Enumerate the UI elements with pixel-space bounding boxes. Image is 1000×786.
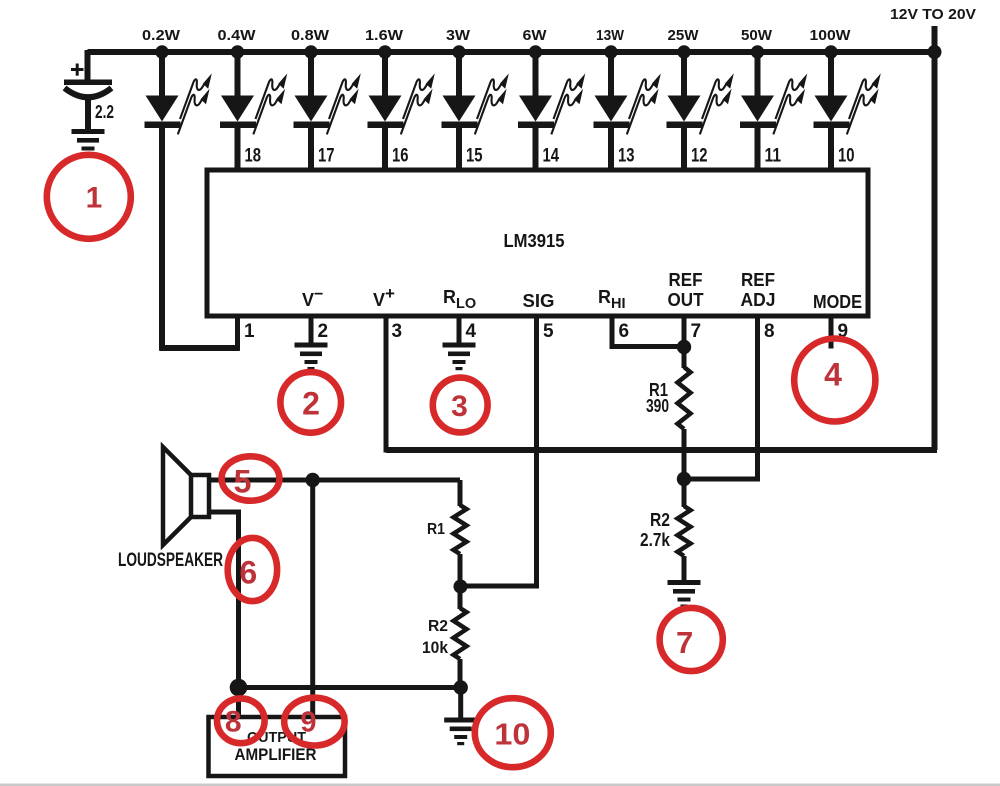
LED D1 emission arrows (178, 73, 212, 134)
LED D2 (0.4W) (220, 52, 256, 172)
LED D9 emission arrows (773, 73, 807, 134)
wire: pin 6 RHI stub (610, 316, 615, 349)
LED D8 (25W) (667, 52, 703, 172)
capacitor C1 2.2uF polarized (64, 50, 114, 129)
svg-text:3: 3 (392, 321, 403, 342)
svg-text:25W: 25W (668, 27, 700, 44)
LED D6 (6W) (518, 52, 554, 172)
svg-text:OUT: OUT (668, 290, 704, 310)
block: OUTPUT AMPLIFIER box (209, 717, 346, 776)
svg-text:3W: 3W (446, 27, 471, 44)
svg-text:14: 14 (543, 146, 560, 167)
wire: amplifier signal output lead (310, 480, 315, 717)
wire: divider top from speaker wire (458, 480, 463, 506)
svg-text:12: 12 (691, 146, 708, 167)
svg-text:2: 2 (318, 321, 329, 342)
svg-text:3: 3 (451, 390, 468, 423)
svg-text:2.2: 2.2 (95, 102, 114, 122)
LED D3 emission arrows (327, 73, 361, 134)
resistor R1 (divider) (454, 505, 467, 554)
wire: pin 4 stub (457, 316, 462, 343)
LED D4 (1.6W) (368, 52, 404, 172)
wire: pin 1 to LED D1 horizontal (160, 345, 240, 351)
resistor R1 390 (678, 367, 691, 429)
LED D10 (100W) (814, 52, 850, 172)
svg-text:R2: R2 (650, 510, 670, 530)
svg-text:7: 7 (691, 321, 702, 342)
LED D1 (0.2W) (145, 52, 181, 351)
node: junction ground bus left (230, 679, 248, 697)
node: junction amplifier output (306, 473, 320, 487)
svg-text:6: 6 (619, 321, 630, 342)
node: junction ground bus right (454, 680, 468, 694)
node: junction divider tap to SIG (454, 580, 468, 594)
wire: pin 2 stub (309, 316, 314, 343)
svg-text:4: 4 (824, 357, 842, 393)
svg-text:9: 9 (300, 707, 316, 739)
svg-text:8: 8 (225, 706, 242, 739)
svg-text:AMPLIFIER: AMPLIFIER (235, 745, 317, 764)
wire: pin 3 V+ down (384, 316, 389, 453)
LED D7 (13W) (594, 52, 630, 172)
ground: main circuit ground (444, 718, 477, 746)
svg-text:16: 16 (392, 146, 409, 167)
svg-text:4: 4 (466, 321, 477, 342)
svg-text:10: 10 (838, 146, 855, 167)
svg-text:13: 13 (618, 146, 635, 167)
svg-text:ADJ: ADJ (741, 290, 776, 310)
LED D5 (3W) (442, 52, 478, 172)
svg-text:1: 1 (244, 321, 255, 342)
svg-text:0.8W: 0.8W (291, 27, 330, 44)
svg-text:2.7k: 2.7k (640, 530, 671, 550)
ground: below capacitor C1 (72, 129, 105, 157)
node: junction top-right rail corner (928, 45, 942, 59)
node: rail junction LED8 (677, 45, 690, 58)
wire: speaker top terminal to divider (209, 478, 460, 483)
svg-text:13W: 13W (596, 27, 625, 44)
LED D10 emission arrows (847, 73, 881, 134)
svg-text:10: 10 (494, 717, 530, 752)
LED D7 emission arrows (627, 73, 661, 134)
LED D3 (0.8W) (294, 52, 330, 172)
svg-text:0.4W: 0.4W (218, 27, 257, 44)
wire: SIG horizontal to divider tap (461, 584, 537, 589)
annotation circle 9 (284, 698, 344, 746)
svg-text:MODE: MODE (813, 292, 862, 312)
svg-text:15: 15 (466, 146, 483, 167)
svg-text:1.6W: 1.6W (365, 27, 404, 44)
svg-text:390: 390 (646, 396, 669, 416)
LED D4 emission arrows (401, 73, 435, 134)
wire: pin 7 REF OUT down (682, 316, 687, 368)
ground: RLO pin 4 (443, 343, 476, 371)
wire: between divider R1 and R2 (458, 554, 463, 609)
wire: V+ horizontal to right rail (386, 447, 937, 453)
svg-text:5: 5 (543, 321, 554, 342)
svg-text:1: 1 (86, 182, 103, 215)
node: rail junction LED2 (231, 45, 244, 58)
op-amp/IC U1 LM3915 body (207, 170, 868, 316)
svg-text:6W: 6W (523, 27, 548, 44)
LED D2 emission arrows (253, 73, 287, 134)
wire: speaker bottom terminal (209, 512, 239, 690)
svg-text:10k: 10k (422, 638, 448, 657)
decorative scan edge (bottom) (0, 784, 1000, 786)
resistor R2 2.7k (678, 506, 691, 556)
wire: +V right vertical rail from 12V-20V down to V+ wire (932, 26, 938, 450)
wire: pin 9 MODE stub (829, 316, 834, 349)
node: junction R1/R2/REF ADJ (677, 472, 691, 486)
svg-text:LOUDSPEAKER: LOUDSPEAKER (118, 550, 223, 571)
node: rail junction LED4 (378, 45, 391, 58)
node: junction pin6/pin7 (677, 340, 691, 354)
loudspeaker LS1 symbol (163, 447, 209, 545)
wire: amplifier ground lead (236, 688, 241, 718)
wire: R2 bottom to ground node (458, 659, 463, 688)
wire: R1 bottom through V+ crossing down to node (682, 429, 687, 507)
svg-text:50W: 50W (741, 27, 773, 44)
svg-text:SIG: SIG (523, 291, 555, 311)
wire: pin 6 to pin 7 link (612, 344, 684, 349)
wire: +V top supply rail (88, 49, 935, 55)
LED D6 emission arrows (551, 73, 585, 134)
annotation circle 6 (228, 538, 277, 601)
ground: V- pin 2 (295, 343, 328, 371)
node: rail junction LED9 (751, 45, 764, 58)
node: rail junction LED5 (452, 45, 465, 58)
LED D9 (50W) (740, 52, 776, 172)
wire: down to ground symbol (458, 688, 463, 719)
node: rail junction LED6 (529, 45, 542, 58)
svg-text:7: 7 (676, 625, 693, 660)
resistor R2 10k (454, 608, 467, 659)
annotation circle 2 (280, 372, 341, 433)
wire: node to pin 8 column (684, 477, 760, 482)
svg-text:REF: REF (669, 270, 703, 290)
svg-text:100W: 100W (810, 27, 852, 44)
node: rail junction LED3 (304, 45, 317, 58)
LED D8 emission arrows (700, 73, 734, 134)
annotation circle 4 (794, 339, 875, 422)
svg-text:12V TO 20V: 12V TO 20V (890, 6, 976, 23)
node: rail junction LED7 (604, 45, 617, 58)
node: rail junction LED10 (824, 45, 837, 58)
ground: below R2 2.7k (668, 580, 701, 608)
annotation circle 5 (222, 456, 280, 500)
svg-text:LM3915: LM3915 (504, 231, 565, 251)
svg-text:2: 2 (302, 386, 320, 422)
wire: ground bus horizontal (239, 685, 461, 690)
svg-text:17: 17 (318, 146, 335, 167)
svg-text:8: 8 (764, 321, 775, 342)
svg-text:18: 18 (245, 146, 262, 167)
LED D5 emission arrows (475, 73, 509, 134)
annotation circle 7 (660, 608, 723, 671)
svg-text:0.2W: 0.2W (142, 27, 181, 44)
annotation circle 10 (475, 698, 551, 767)
wire: pin 8 REF ADJ down (755, 316, 760, 482)
annotation circle 8 (217, 698, 265, 743)
wire: R2 to ground (682, 556, 687, 581)
wire: pin 5 SIG down (534, 316, 539, 589)
node: rail junction LED1 (155, 45, 168, 58)
svg-text:5: 5 (234, 464, 252, 500)
svg-text:6: 6 (239, 555, 257, 591)
svg-text:REF: REF (741, 270, 775, 290)
wire: pin 1 stub down (235, 316, 240, 351)
svg-text:R1: R1 (427, 521, 445, 538)
svg-text:11: 11 (765, 146, 782, 167)
annotation circle 3 (433, 378, 488, 433)
annotation circle 1 (47, 155, 131, 239)
svg-text:R2: R2 (428, 618, 448, 635)
